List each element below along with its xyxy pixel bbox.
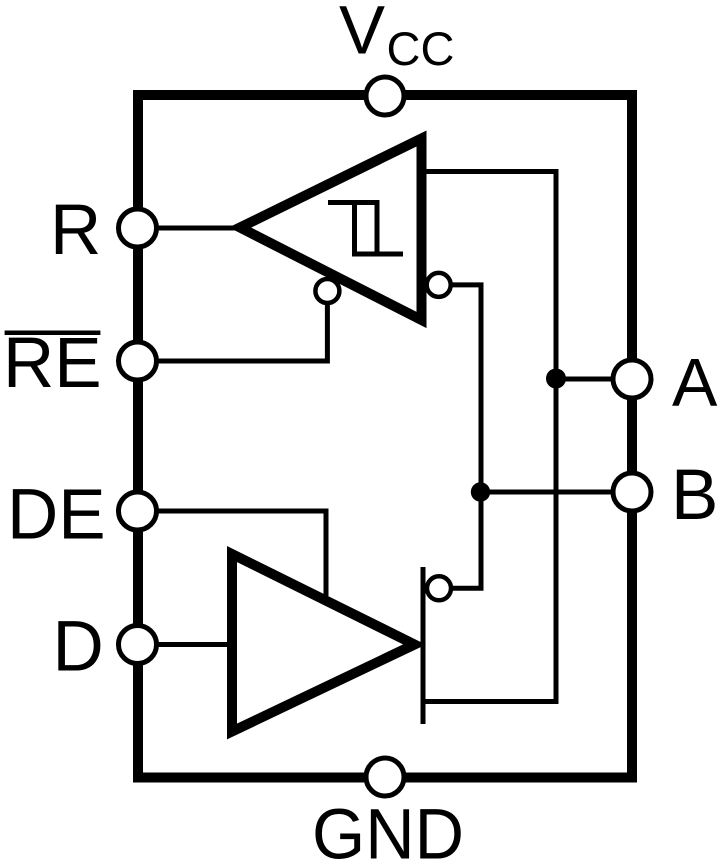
IC package boundary (138, 95, 632, 778)
svg-text:B: B (671, 456, 718, 535)
receiver U1 (triangle, points left) (240, 139, 422, 321)
svg-text:DE: DE (7, 476, 106, 555)
driver output bar (421, 567, 426, 724)
wire RE pin to receiver enable bubble (137, 303, 327, 361)
svg-text:RE: RE (3, 324, 102, 403)
pin GND (366, 758, 404, 796)
svg-text:CC: CC (387, 22, 455, 75)
pin RE (119, 342, 157, 380)
pin A (613, 360, 651, 398)
pin B (613, 473, 651, 511)
svg-text:D: D (53, 607, 104, 686)
receiver inverting input bubble (B input) (427, 273, 451, 297)
overline of RE (5, 331, 101, 336)
junction node B (471, 482, 490, 501)
pin VCC (366, 77, 404, 115)
pin R (119, 209, 157, 247)
wire A pin stub (556, 377, 632, 382)
wire net A: receiver non-inverting input / driver non-inverting output (423, 172, 556, 702)
hysteresis symbol inside receiver (328, 200, 403, 257)
pin DE (119, 492, 157, 530)
wire B pin stub (481, 490, 632, 495)
svg-text:R: R (50, 191, 101, 270)
receiver enable bubble (active-low RE) (315, 279, 339, 303)
svg-text:A: A (672, 345, 718, 421)
wire R pin to receiver output apex (137, 226, 235, 231)
driver inverting output bubble (Z output) (427, 576, 451, 600)
svg-text:V: V (339, 0, 385, 68)
pin D (119, 626, 157, 664)
wire D pin to driver input (137, 642, 235, 647)
wire DE pin to driver enable (top edge) (137, 511, 326, 596)
driver U2 (triangle, points right) (232, 554, 415, 732)
wire net B: receiver inverting input / driver inverting output (452, 285, 481, 588)
junction node A (546, 369, 566, 389)
svg-text:GND: GND (312, 796, 464, 865)
